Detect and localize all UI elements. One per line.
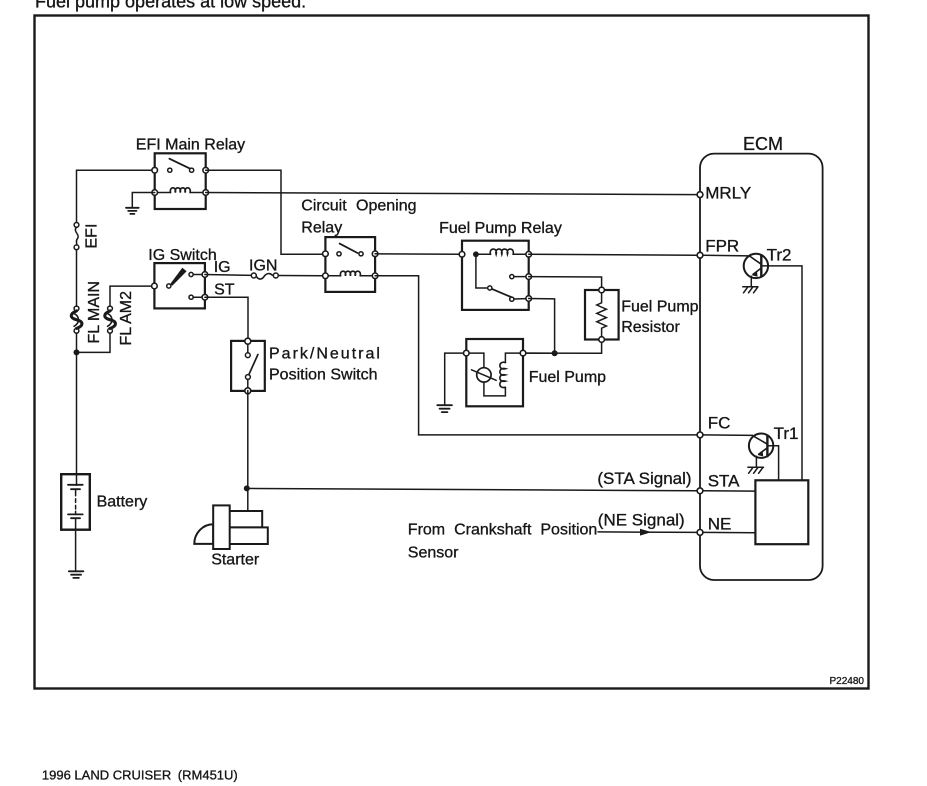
svg-text:(STA Signal): (STA Signal): [597, 469, 691, 488]
wire NE pin to block: [703, 531, 756, 533]
svg-text:P22480: P22480: [830, 676, 865, 687]
coil: [170, 188, 190, 193]
Fuel Pump: [464, 339, 526, 406]
svg-text:Fuel Pump: Fuel Pump: [621, 299, 698, 316]
wire STA signal: [247, 488, 697, 490]
svg-text:Tr1: Tr1: [774, 424, 799, 443]
ECM box: [700, 154, 823, 580]
Fuel Pump Relay: [459, 241, 531, 310]
transistor Tr1: [703, 434, 779, 481]
transistor Tr2: [703, 254, 802, 481]
Park/Neutral Position Switch: [231, 338, 265, 394]
svg-text:(NE Signal): (NE Signal): [598, 510, 685, 529]
Battery: [61, 474, 90, 571]
ground tr2: [743, 286, 758, 288]
blade: [169, 159, 192, 170]
svg-text:Resistor: Resistor: [621, 319, 680, 336]
wire: FL AM2 to junction: [79, 333, 110, 352]
svg-text:FPR: FPR: [705, 236, 739, 255]
junction dot: [473, 251, 479, 257]
wire: COR coil to FC pin: [375, 276, 697, 435]
outer frame: [35, 16, 869, 689]
feed down to switch: [476, 254, 487, 288]
pin STA: [697, 488, 703, 494]
wire: EFI fuse to FL MAIN: [76, 250, 78, 307]
svg-text:Fuel Pump Relay: Fuel Pump Relay: [439, 220, 562, 237]
Starter: [194, 505, 268, 549]
IG Switch: [152, 263, 208, 308]
svg-text:Opening: Opening: [356, 198, 417, 215]
svg-text:Relay: Relay: [301, 219, 342, 236]
fuse IGN: [251, 273, 278, 279]
motor branch: [469, 353, 484, 368]
wire MRLY net: [206, 193, 697, 195]
svg-text:FC: FC: [708, 413, 731, 432]
svg-text:EFI Main Relay: EFI Main Relay: [136, 137, 245, 154]
svg-text:Fuel pump operates at low spee: Fuel pump operates at low speed.: [35, 0, 306, 12]
wire STA pin to block: [703, 490, 756, 492]
svg-text:Circuit: Circuit: [301, 198, 347, 215]
wire: IG to IGN fuse: [205, 274, 252, 277]
wire: FPR coil to ECM FPR pin: [529, 253, 697, 256]
svg-text:From Crankshaft Position: From Crankshaft Position: [408, 521, 598, 538]
fuse EFI: [74, 223, 79, 250]
wire: resistor bottom to pump wire: [526, 342, 602, 353]
pump coil (vertical): [500, 362, 506, 387]
wire: pump plus to resistor net: [526, 352, 555, 354]
node: FL AM2 join: [74, 349, 80, 355]
pin NE: [697, 530, 703, 536]
node: STA branch: [244, 485, 250, 491]
svg-text:Tr2: Tr2: [767, 245, 792, 264]
wire: COR contact to FPR: [375, 253, 462, 256]
Circuit Opening Relay: [323, 237, 378, 292]
svg-text:Sensor: Sensor: [408, 545, 459, 562]
wire: FPR middle contact to resistor: [529, 277, 602, 288]
pin FPR: [697, 252, 703, 258]
EFI Main Relay: [152, 153, 209, 209]
blade wedge: [170, 268, 186, 286]
svg-text:Battery: Battery: [97, 494, 148, 511]
svg-text:(RM451U): (RM451U): [178, 768, 238, 783]
wire: FL MAIN to junction and battery: [76, 333, 78, 485]
svg-text:FL MAIN: FL MAIN: [86, 281, 103, 344]
svg-text:Park/Neutral: Park/Neutral: [269, 345, 382, 362]
wire: relay contact to circuit opening relay: [206, 170, 323, 254]
pin MRLY: [697, 192, 703, 198]
wire: P/N switch down to starter: [247, 391, 249, 512]
svg-text:MRLY: MRLY: [705, 183, 751, 202]
svg-text:Position Switch: Position Switch: [269, 366, 378, 383]
svg-text:FL AM2: FL AM2: [118, 291, 135, 346]
fusible link FL MAIN: [71, 306, 82, 333]
wire NE signal with arrow: [598, 531, 697, 534]
wire: battery feed left vertical: [77, 170, 155, 222]
ground (fuel pump): [437, 405, 452, 412]
node: pump/resistor junction: [552, 350, 558, 356]
svg-text:NE: NE: [708, 514, 732, 533]
ground (battery): [69, 571, 84, 578]
wire: IGN fuse to COR coil: [279, 275, 323, 277]
svg-text:1996 LAND CRUISER: 1996 LAND CRUISER: [42, 768, 171, 783]
ECM internal block: [755, 480, 808, 544]
svg-text:IGN: IGN: [249, 258, 277, 275]
svg-text:EFI: EFI: [84, 224, 101, 249]
ground (EFI main relay): [126, 208, 139, 214]
wire: ST to park/neutral switch: [205, 297, 248, 342]
svg-text:IG Switch: IG Switch: [148, 247, 216, 264]
ground tr1: [748, 466, 764, 468]
svg-text:STA: STA: [708, 472, 740, 491]
svg-text:Starter: Starter: [211, 551, 260, 568]
Fuel Pump Resistor: [585, 287, 619, 342]
wire: FL AM2 branch: [110, 286, 154, 306]
svg-text:ECM: ECM: [743, 134, 783, 154]
fusible link FL AM2: [105, 306, 116, 333]
svg-text:ST: ST: [214, 282, 235, 299]
wire: FPR bottom contact to pump node: [529, 299, 555, 354]
pin FC: [697, 432, 703, 438]
svg-text:Fuel Pump: Fuel Pump: [529, 369, 606, 386]
wire: pump to ground: [445, 353, 464, 405]
wire: relay coil to ground: [132, 193, 154, 208]
svg-text:IG: IG: [214, 259, 231, 276]
